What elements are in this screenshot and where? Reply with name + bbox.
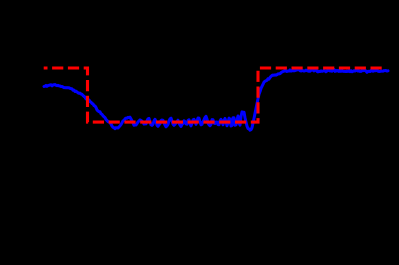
blue filtered-signal curve bbox=[44, 70, 388, 131]
red dashed square wave bbox=[44, 68, 387, 122]
